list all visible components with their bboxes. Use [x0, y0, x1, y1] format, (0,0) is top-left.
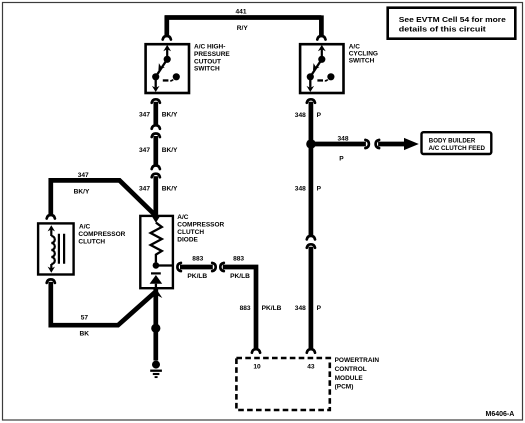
label A/C CYCLING SWITCH [349, 43, 378, 64]
connector below switch S2 [307, 99, 315, 103]
label A/C COMPRESSOR CLUTCH DIODE [177, 214, 224, 244]
label A/C HIGH-PRESSURE CUTOUT SWITCH [194, 44, 230, 73]
svg-text:BK: BK [80, 331, 90, 338]
svg-text:SWITCH: SWITCH [349, 58, 375, 65]
svg-text:DIODE: DIODE [177, 237, 198, 244]
in-line connector C4 [307, 236, 315, 240]
A/C compressor clutch box [38, 223, 74, 274]
PCM dashed box [236, 358, 329, 410]
wire below diode box to ground [153, 289, 158, 361]
svg-text:BK/Y: BK/Y [162, 112, 178, 119]
svg-text:348: 348 [337, 136, 348, 143]
wire 57 BK from clutch to ground junction [51, 282, 156, 325]
switch S1 internals [152, 45, 180, 92]
connector at clutch top [47, 215, 55, 219]
svg-text:MODULE: MODULE [335, 375, 364, 382]
label A/C COMPRESSOR CLUTCH [78, 224, 125, 246]
label POWERTRAIN CONTROL MODULE (PCM) [335, 357, 380, 390]
diode box internals [150, 217, 173, 288]
wire 348 branch to body builder [311, 142, 366, 147]
switch S2: A/C cycling switch box [300, 44, 343, 93]
svg-text:A/C HIGH-: A/C HIGH- [194, 44, 225, 51]
svg-text:883: 883 [192, 256, 203, 263]
svg-text:P: P [339, 156, 344, 163]
svg-text:BK/Y: BK/Y [74, 188, 90, 195]
svg-text:43: 43 [307, 363, 315, 370]
svg-text:348: 348 [295, 305, 306, 312]
clutch internals: coil and plates [48, 225, 65, 273]
svg-text:883: 883 [240, 305, 251, 312]
wire 347 segment 1 [153, 102, 158, 125]
svg-text:CONTROL: CONTROL [335, 366, 367, 373]
svg-text:R/Y: R/Y [237, 25, 249, 32]
A/C compressor clutch diode box [140, 216, 173, 288]
connector at diode box 883 output [177, 263, 181, 271]
svg-text:CLUTCH: CLUTCH [177, 229, 204, 236]
wire 883 segment b to PCM [223, 267, 256, 349]
wire 348 segment 2 [309, 247, 314, 349]
svg-text:P: P [317, 185, 322, 192]
svg-text:A/C: A/C [79, 224, 91, 231]
svg-text:PRESSURE: PRESSURE [194, 51, 230, 58]
svg-text:348: 348 [295, 112, 306, 119]
wire 347 segment 2 [153, 136, 158, 165]
wire 348 segment 1 [309, 102, 314, 236]
svg-text:A/C CLUTCH FEED: A/C CLUTCH FEED [429, 145, 486, 152]
svg-text:M6406-A: M6406-A [486, 411, 515, 418]
note box: See EVTM Cell 54 [388, 8, 516, 39]
svg-text:COMPRESSOR: COMPRESSOR [177, 222, 224, 229]
connector at clutch bottom [47, 279, 55, 283]
svg-text:details of this circuit: details of this circuit [399, 24, 487, 33]
in-line connector C3 [212, 263, 216, 271]
box: BODY BUILDER A/C CLUTCH FEED [422, 132, 492, 154]
connector below switch S1 [152, 99, 160, 103]
wire 347 segment 3 [153, 176, 158, 215]
svg-text:PK/LB: PK/LB [187, 273, 207, 280]
wire 883 segment a [180, 265, 213, 270]
wire 441 R/Y top horizontal [165, 15, 322, 36]
in-line connector C2 [152, 166, 160, 170]
svg-text:A/C: A/C [177, 214, 189, 221]
connector at PCM pin 43 [307, 349, 315, 353]
wire 347 branch to compressor clutch [51, 180, 156, 216]
wire to feed arrow [378, 142, 405, 147]
svg-text:(PCM): (PCM) [335, 384, 354, 391]
svg-text:347: 347 [139, 186, 150, 193]
ground G100 [150, 361, 162, 378]
svg-text:See EVTM Cell 54 for more: See EVTM Cell 54 for more [399, 15, 506, 24]
svg-text:BK/Y: BK/Y [162, 186, 178, 193]
svg-text:P: P [317, 112, 322, 119]
svg-text:PK/LB: PK/LB [230, 273, 250, 280]
svg-text:PK/LB: PK/LB [262, 305, 282, 312]
feed arrowhead [404, 138, 419, 150]
svg-text:348: 348 [295, 185, 306, 192]
connector at A/C cycling switch top [317, 36, 325, 40]
switch S1: A/C high-pressure cutout switch box [146, 44, 189, 93]
svg-text:10: 10 [253, 363, 261, 370]
svg-text:347: 347 [139, 112, 150, 119]
junction dot [306, 139, 316, 149]
in-line connector C1 [152, 125, 160, 129]
svg-text:P: P [317, 305, 322, 312]
svg-text:CUTOUT: CUTOUT [194, 58, 221, 65]
svg-text:441: 441 [235, 9, 246, 16]
svg-text:347: 347 [78, 172, 89, 179]
svg-text:BK/Y: BK/Y [162, 147, 178, 154]
svg-text:COMPRESSOR: COMPRESSOR [78, 231, 125, 238]
svg-text:883: 883 [233, 256, 244, 263]
svg-text:A/C: A/C [349, 43, 361, 50]
svg-text:57: 57 [81, 315, 89, 322]
connector at A/C high-pressure cutout switch top [163, 36, 171, 40]
svg-text:CLUTCH: CLUTCH [78, 238, 105, 245]
splice dot S100 [151, 324, 160, 333]
arrow into diode box bottom [149, 288, 162, 298]
svg-text:POWERTRAIN: POWERTRAIN [335, 357, 380, 364]
in-line connector C5 [365, 140, 369, 148]
svg-text:BODY BUILDER: BODY BUILDER [429, 138, 476, 145]
svg-text:CYCLING: CYCLING [349, 51, 378, 58]
switch S2 internals [307, 45, 335, 92]
svg-text:347: 347 [139, 147, 150, 154]
svg-text:SWITCH: SWITCH [194, 66, 220, 73]
connector at PCM pin 10 [252, 349, 260, 353]
